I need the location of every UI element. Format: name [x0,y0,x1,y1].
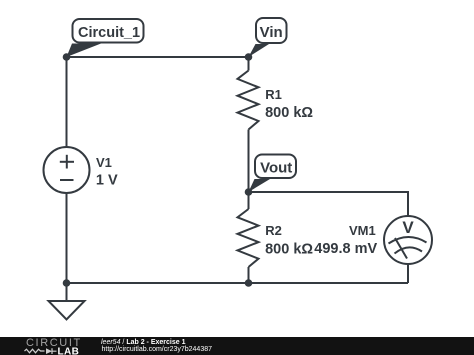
svg-text:Circuit_1: Circuit_1 [78,25,140,41]
svg-text:R2: R2 [265,223,282,238]
svg-text:V1: V1 [96,155,112,170]
svg-text:800 kΩ: 800 kΩ [265,105,313,121]
svg-text:V: V [402,218,414,237]
svg-text:Vin: Vin [260,24,283,41]
svg-text:1 V: 1 V [96,173,118,189]
svg-text:800 kΩ: 800 kΩ [265,241,313,257]
svg-text:VM1: VM1 [349,223,376,238]
svg-text:499.8 mV: 499.8 mV [314,241,377,257]
svg-text:Vout: Vout [260,160,292,177]
svg-text:LAB: LAB [58,347,80,355]
svg-text:R1: R1 [265,87,282,102]
svg-text:http://circuitlab.com/cr23y7b2: http://circuitlab.com/cr23y7b244387 [102,346,213,353]
